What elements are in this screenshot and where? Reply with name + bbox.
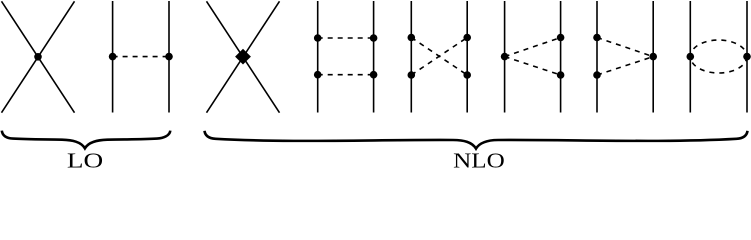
right triangle: right nucleon line	[652, 1, 654, 113]
football: left nucleon line	[689, 1, 691, 113]
right triangle: lower pion propagator (dashed)	[597, 57, 653, 75]
left triangle: right nucleon line	[560, 1, 562, 113]
one-pion-exchange: right vertex dot	[165, 53, 173, 61]
planar box: upper pion propagator (dashed)	[318, 37, 374, 39]
football: two-pion loop (dashed ellipse)	[690, 40, 747, 73]
one-pion-exchange: right nucleon line	[168, 1, 170, 113]
svg-text:NLO: NLO	[453, 149, 505, 169]
left triangle: left nucleon line	[504, 1, 506, 113]
planar box: lower-left vertex dot	[314, 71, 322, 79]
one-pion-exchange: pion propagator (dashed)	[113, 56, 169, 58]
left triangle: upper-right vertex dot	[557, 34, 565, 42]
NLO contact diagram: nucleon line (down-right)	[207, 1, 280, 112]
left triangle: lower pion propagator (dashed)	[505, 57, 561, 75]
right triangle: upper-left vertex dot	[593, 34, 601, 42]
crossed box: left nucleon line	[410, 1, 412, 113]
LO contact diagram: nucleon line (down-right)	[2, 1, 75, 112]
crossed box: lower-left vertex dot	[408, 71, 416, 79]
right triangle: right mid vertex dot	[649, 53, 657, 61]
planar box: lower pion propagator (dashed)	[318, 74, 374, 76]
crossed box: right nucleon line	[466, 1, 468, 113]
football: right vertex dot	[743, 53, 751, 61]
planar box: right nucleon line	[373, 1, 375, 113]
one-pion-exchange: left vertex dot	[109, 53, 117, 61]
one-pion-exchange: left nucleon line	[112, 1, 114, 113]
crossed box: lower-right vertex dot	[463, 71, 471, 79]
left triangle: upper pion propagator (dashed)	[505, 38, 561, 57]
right triangle: upper pion propagator (dashed)	[597, 38, 653, 57]
crossed box: pion propagator upper-left to lower-right (dashed)	[411, 38, 467, 76]
football: right nucleon line	[746, 1, 748, 113]
right triangle: lower-left vertex dot	[593, 71, 601, 79]
LO underbrace	[2, 131, 171, 149]
right triangle: left nucleon line	[596, 1, 598, 113]
NLO contact vertex (filled diamond)	[235, 49, 251, 65]
football: left vertex dot	[687, 53, 695, 61]
crossed box: pion propagator lower-left to upper-right (dashed)	[411, 38, 467, 76]
LO contact vertex dot	[34, 53, 42, 61]
planar box: left nucleon line	[317, 1, 319, 113]
planar box: upper-left vertex dot	[314, 34, 322, 42]
NLO underbrace	[205, 131, 748, 149]
LO contact diagram: nucleon line (down-left)	[2, 1, 75, 112]
crossed box: upper-right vertex dot	[463, 34, 471, 42]
NLO contact diagram: nucleon line (down-left)	[207, 1, 280, 112]
left triangle: left mid vertex dot	[501, 53, 509, 61]
left triangle: lower-right vertex dot	[557, 71, 565, 79]
planar box: upper-right vertex dot	[370, 34, 378, 42]
planar box: lower-right vertex dot	[370, 71, 378, 79]
svg-text:LO: LO	[67, 149, 103, 169]
crossed box: upper-left vertex dot	[408, 34, 416, 42]
